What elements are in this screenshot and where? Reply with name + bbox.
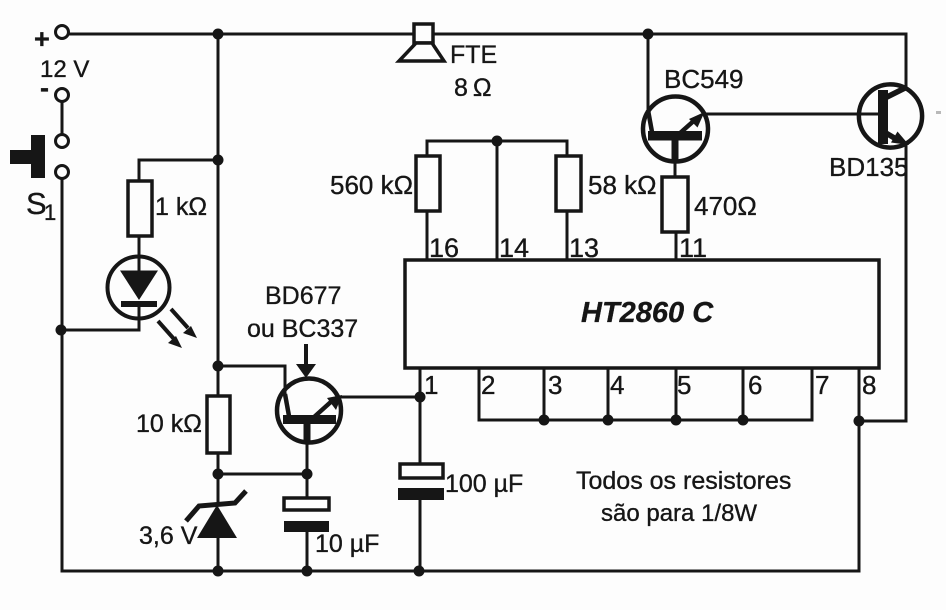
- wire pin1 upper: [419, 368, 422, 464]
- wire BD677 emitter to pin1: [341, 396, 420, 399]
- node junction dots: [56, 29, 865, 577]
- resistor R4 58k: [556, 156, 581, 211]
- svg-text:14: 14: [499, 233, 529, 263]
- svg-text:8: 8: [862, 370, 876, 400]
- wire zener to bus: [217, 538, 220, 571]
- node base tap: [213, 361, 224, 372]
- transistor Q1 BD677: [277, 379, 342, 443]
- wire BC549 to 470: [674, 161, 677, 177]
- wire node link 10k-cap: [218, 473, 307, 476]
- wire top bus +12V: [69, 33, 906, 36]
- label S1: [26, 186, 56, 225]
- svg-text:BD135: BD135: [829, 152, 909, 182]
- node pin3 bus: [539, 415, 550, 426]
- svg-text:470Ω: 470Ω: [694, 191, 757, 221]
- wire left rail: [61, 179, 64, 571]
- node top-right junction: [643, 29, 654, 40]
- label BD677 ou BC337: [247, 282, 358, 343]
- svg-text:560 kΩ: 560 kΩ: [330, 170, 413, 200]
- IC U1 HT2860C: [405, 260, 879, 368]
- LED arrow 2: [171, 309, 197, 338]
- node bus-10uF: [302, 566, 313, 577]
- svg-text:10 kΩ: 10 kΩ: [136, 410, 202, 438]
- svg-text:4: 4: [610, 370, 624, 400]
- resistor R2 10k: [207, 396, 230, 453]
- resistor R5 470: [662, 177, 688, 232]
- terminal -: [56, 89, 69, 102]
- node pin6 bus: [738, 415, 749, 426]
- transistor Q3 BD135: [859, 84, 922, 147]
- node top-left junction: [213, 29, 224, 40]
- svg-text:3: 3: [548, 370, 562, 400]
- wire pin16: [426, 211, 429, 261]
- wire pin11: [675, 232, 678, 261]
- svg-text:2: 2: [481, 370, 495, 400]
- svg-text:BD677: BD677: [265, 282, 341, 310]
- wire resistor header: [427, 141, 567, 156]
- LED arrow 1: [158, 321, 182, 348]
- switch S1 actuator: [10, 135, 45, 178]
- svg-text:FTE: FTE: [450, 41, 497, 69]
- capacitor C2 100uF: [398, 464, 444, 500]
- speaker FTE: [399, 24, 444, 61]
- label FTE 8ohm: [450, 41, 497, 102]
- svg-text:-: -: [40, 73, 49, 103]
- wire LED bottom to left rail: [61, 318, 139, 330]
- svg-text:1 kΩ: 1 kΩ: [155, 193, 207, 221]
- wire BD135 collector drop: [905, 34, 908, 88]
- transistor Q2 BC549: [643, 97, 708, 162]
- node 10uF top: [302, 469, 313, 480]
- wire BC549 base: [647, 36, 650, 110]
- switch S1 contact upper: [56, 135, 69, 148]
- wire pin4: [607, 368, 610, 420]
- wire BD677 bottom lead: [306, 442, 309, 498]
- svg-text:ou BC337: ou BC337: [247, 315, 358, 343]
- svg-text:BC549: BC549: [664, 64, 744, 94]
- wire pin7: [811, 368, 814, 420]
- svg-text:10 µF: 10 µF: [315, 530, 379, 558]
- resistor R3 560k: [416, 156, 440, 211]
- wire 10uF to bus: [306, 532, 309, 571]
- wire pin3: [543, 368, 546, 420]
- wire pin6: [742, 368, 745, 420]
- node pin14 top: [492, 136, 503, 147]
- node bus-zener: [213, 566, 224, 577]
- wire pin8: [858, 368, 861, 571]
- node pin1: [415, 392, 426, 403]
- resistor R1 1k: [128, 181, 152, 236]
- svg-text:100 µF: 100 µF: [445, 470, 523, 498]
- node 1k tap: [213, 155, 224, 166]
- wire 1k top link: [139, 160, 218, 181]
- wire pin2-7 bus: [479, 419, 812, 422]
- zener diode 3,6V: [186, 491, 246, 538]
- svg-text:3,6 V: 3,6 V: [139, 522, 198, 550]
- wire BD135 emitter down: [859, 144, 906, 421]
- node LED-left: [56, 325, 67, 336]
- wire pin5: [675, 368, 678, 420]
- pointer arrow to BD677: [296, 344, 316, 378]
- svg-text:11: 11: [679, 233, 707, 263]
- wire pin13: [566, 211, 569, 261]
- switch S1 contact lower: [56, 166, 69, 179]
- wire 1k to LED: [138, 236, 141, 257]
- svg-text:1: 1: [424, 370, 438, 400]
- node zener tap: [213, 469, 224, 480]
- wire 10k to zener: [217, 453, 220, 504]
- node pin8: [854, 416, 865, 427]
- wire 100uF to bus: [419, 500, 422, 571]
- wire bottom bus: [62, 570, 859, 573]
- wire terminal gap: [61, 102, 64, 134]
- wire pin2: [478, 368, 481, 420]
- wire main vertical rail x218: [217, 34, 220, 396]
- svg-text:Todos os resistores: Todos os resistores: [576, 467, 791, 495]
- node pin5 bus: [671, 415, 682, 426]
- terminal +: [56, 26, 69, 39]
- wire BC549 collector to BD135 base: [704, 113, 878, 116]
- node pin4 bus: [603, 415, 614, 426]
- svg-text:+: +: [34, 24, 50, 54]
- capacitor C1 10uF: [284, 498, 329, 532]
- svg-text:13: 13: [569, 233, 599, 263]
- svg-text:HT2860 C: HT2860 C: [581, 297, 714, 329]
- svg-text:58 kΩ: 58 kΩ: [588, 170, 657, 200]
- node bus-pin1: [414, 566, 425, 577]
- wire pin14: [496, 141, 499, 261]
- scan artifact mark: [936, 111, 941, 114]
- svg-text:são para 1/8W: são para 1/8W: [601, 500, 757, 527]
- LED D1: [108, 257, 170, 319]
- svg-text:6: 6: [748, 370, 762, 400]
- svg-text:16: 16: [429, 233, 459, 263]
- svg-text:8 Ω: 8 Ω: [454, 74, 491, 102]
- svg-text:5: 5: [677, 370, 691, 400]
- note text: [576, 467, 791, 527]
- svg-text:7: 7: [815, 370, 829, 400]
- svg-text:1: 1: [44, 200, 56, 225]
- label +12V: [34, 24, 89, 103]
- wire base BD677: [218, 366, 285, 394]
